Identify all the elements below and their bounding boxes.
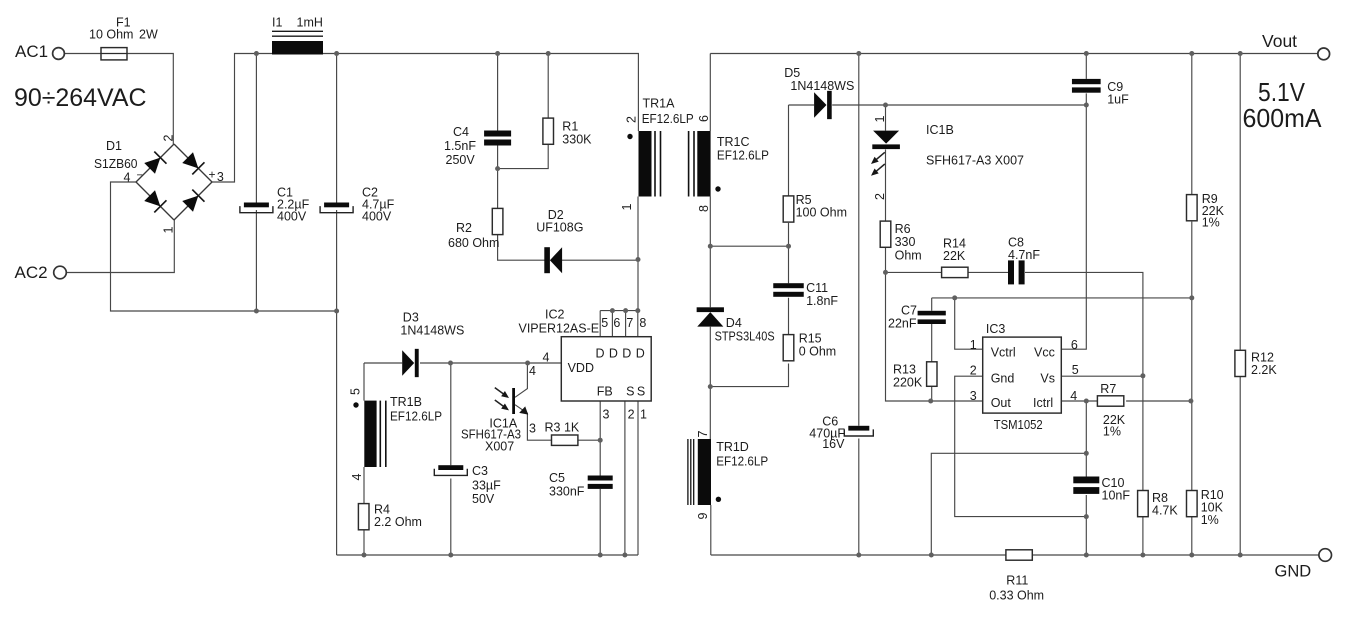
svg-text:EF12.6LP: EF12.6LP xyxy=(717,149,769,163)
svg-text:S1ZB60: S1ZB60 xyxy=(94,157,138,171)
svg-text:R1: R1 xyxy=(562,120,578,134)
svg-text:R15: R15 xyxy=(799,332,822,346)
svg-text:1: 1 xyxy=(970,338,977,352)
svg-text:4: 4 xyxy=(1070,389,1077,403)
svg-text:C5: C5 xyxy=(549,471,565,485)
svg-text:S: S xyxy=(637,385,645,399)
svg-text:330K: 330K xyxy=(562,133,592,147)
svg-text:5: 5 xyxy=(349,388,363,395)
svg-text:4.7K: 4.7K xyxy=(1152,504,1178,518)
svg-text:TR1C: TR1C xyxy=(717,135,750,149)
svg-text:10 Ohm: 10 Ohm xyxy=(89,28,133,42)
svg-text:8: 8 xyxy=(639,316,646,330)
svg-text:S: S xyxy=(626,385,634,399)
svg-text:4.7nF: 4.7nF xyxy=(1008,248,1040,262)
svg-text:UF108G: UF108G xyxy=(536,221,583,235)
svg-text:Ictrl: Ictrl xyxy=(1033,396,1053,410)
svg-text:R3 1K: R3 1K xyxy=(545,421,580,435)
svg-text:Gnd: Gnd xyxy=(991,372,1015,386)
svg-text:−: − xyxy=(137,170,143,182)
svg-text:7: 7 xyxy=(626,316,633,330)
svg-text:IC3: IC3 xyxy=(986,322,1006,336)
svg-text:1%: 1% xyxy=(1103,425,1121,439)
svg-text:2W: 2W xyxy=(139,28,158,42)
svg-text:EF12.6LP: EF12.6LP xyxy=(390,410,442,424)
svg-text:GND: GND xyxy=(1275,563,1312,581)
svg-text:D1: D1 xyxy=(106,139,122,153)
svg-text:D4: D4 xyxy=(726,316,742,330)
svg-text:8: 8 xyxy=(697,205,711,212)
svg-text:1: 1 xyxy=(873,116,887,123)
svg-text:3: 3 xyxy=(970,389,977,403)
svg-text:0 Ohm: 0 Ohm xyxy=(799,345,837,359)
svg-text:Vout: Vout xyxy=(1262,31,1297,51)
svg-text:Vctrl: Vctrl xyxy=(991,346,1016,360)
svg-text:1mH: 1mH xyxy=(297,16,323,30)
svg-text:2: 2 xyxy=(625,116,639,123)
svg-text:5: 5 xyxy=(601,316,608,330)
svg-text:TR1A: TR1A xyxy=(643,97,676,111)
svg-text:400V: 400V xyxy=(277,210,307,224)
svg-text:6: 6 xyxy=(1071,338,1078,352)
svg-text:2: 2 xyxy=(162,135,176,142)
svg-text:100 Ohm: 100 Ohm xyxy=(796,206,847,220)
svg-text:330nF: 330nF xyxy=(549,485,585,499)
svg-text:6: 6 xyxy=(613,316,620,330)
svg-text:600mA: 600mA xyxy=(1243,103,1323,133)
svg-text:4: 4 xyxy=(124,171,131,185)
svg-text:I1: I1 xyxy=(272,16,282,30)
svg-text:Out: Out xyxy=(991,396,1012,410)
svg-text:2: 2 xyxy=(873,193,887,200)
svg-text:7: 7 xyxy=(696,431,710,438)
svg-text:VDD: VDD xyxy=(568,361,594,375)
svg-text:680 Ohm: 680 Ohm xyxy=(448,236,499,250)
svg-text:D: D xyxy=(609,347,618,361)
svg-text:3: 3 xyxy=(217,170,224,184)
svg-text:220K: 220K xyxy=(893,376,923,390)
svg-text:1: 1 xyxy=(620,204,634,211)
svg-text:2: 2 xyxy=(628,408,635,422)
svg-text:R7: R7 xyxy=(1100,382,1116,396)
svg-text:1%: 1% xyxy=(1201,513,1219,527)
svg-text:R13: R13 xyxy=(893,363,916,377)
svg-text:4: 4 xyxy=(543,351,550,365)
svg-text:C4: C4 xyxy=(453,125,469,139)
svg-text:250V: 250V xyxy=(446,153,476,167)
svg-text:TR1D: TR1D xyxy=(716,440,749,454)
svg-text:D: D xyxy=(622,347,631,361)
svg-text:1: 1 xyxy=(162,227,176,234)
svg-text:5: 5 xyxy=(1072,363,1079,377)
svg-text:EF12.6LP: EF12.6LP xyxy=(716,455,768,469)
svg-text:0.33 Ohm: 0.33 Ohm xyxy=(989,589,1044,603)
svg-text:4: 4 xyxy=(350,474,364,481)
svg-text:D: D xyxy=(636,347,645,361)
svg-text:AC2: AC2 xyxy=(15,263,48,282)
svg-text:VIPER12AS-E: VIPER12AS-E xyxy=(519,322,600,336)
svg-text:Vs: Vs xyxy=(1040,372,1055,386)
svg-text:2: 2 xyxy=(970,364,977,378)
svg-text:Vcc: Vcc xyxy=(1034,346,1055,360)
svg-text:6: 6 xyxy=(697,115,711,122)
svg-text:+: + xyxy=(209,168,216,182)
svg-text:IC2: IC2 xyxy=(545,308,565,322)
svg-text:STPS3L40S: STPS3L40S xyxy=(715,330,775,344)
svg-text:16V: 16V xyxy=(822,437,845,451)
svg-text:10nF: 10nF xyxy=(1102,489,1131,503)
svg-text:AC1: AC1 xyxy=(15,42,48,61)
svg-text:Ohm: Ohm xyxy=(895,249,922,263)
svg-text:4: 4 xyxy=(529,364,536,378)
svg-text:1N4148WS: 1N4148WS xyxy=(790,79,854,93)
svg-text:D3: D3 xyxy=(403,311,419,325)
svg-text:FB: FB xyxy=(597,385,613,399)
svg-text:1N4148WS: 1N4148WS xyxy=(400,324,464,338)
svg-text:33µF: 33µF xyxy=(472,479,501,493)
svg-text:1: 1 xyxy=(640,408,647,422)
svg-text:1.5nF: 1.5nF xyxy=(444,139,476,153)
svg-text:TSM1052: TSM1052 xyxy=(994,418,1043,432)
svg-text:C3: C3 xyxy=(472,464,488,478)
svg-text:IC1B: IC1B xyxy=(926,123,954,137)
svg-text:1uF: 1uF xyxy=(1107,93,1129,107)
svg-text:R6: R6 xyxy=(895,222,911,236)
svg-text:9: 9 xyxy=(696,513,710,520)
svg-text:2.2 Ohm: 2.2 Ohm xyxy=(374,515,422,529)
svg-text:EF12.6LP: EF12.6LP xyxy=(642,112,694,126)
svg-text:1.8nF: 1.8nF xyxy=(806,294,838,308)
svg-text:X007: X007 xyxy=(485,440,514,454)
svg-text:D: D xyxy=(596,347,605,361)
svg-text:C7: C7 xyxy=(901,304,917,318)
svg-text:R11: R11 xyxy=(1006,574,1028,588)
svg-text:90÷264VAC: 90÷264VAC xyxy=(14,84,147,112)
svg-text:R2: R2 xyxy=(456,221,472,235)
svg-text:3: 3 xyxy=(603,408,610,422)
svg-text:22K: 22K xyxy=(943,249,966,263)
svg-text:2.2K: 2.2K xyxy=(1251,363,1277,377)
svg-text:330: 330 xyxy=(895,235,916,249)
svg-text:SFH617-A3 X007: SFH617-A3 X007 xyxy=(926,154,1024,168)
svg-text:1%: 1% xyxy=(1202,216,1220,230)
svg-text:22nF: 22nF xyxy=(888,317,917,331)
svg-text:3: 3 xyxy=(529,422,536,436)
svg-text:C11: C11 xyxy=(806,281,828,295)
svg-text:50V: 50V xyxy=(472,492,495,506)
svg-text:D5: D5 xyxy=(784,66,800,80)
svg-text:TR1B: TR1B xyxy=(390,395,422,409)
svg-text:400V: 400V xyxy=(362,210,392,224)
